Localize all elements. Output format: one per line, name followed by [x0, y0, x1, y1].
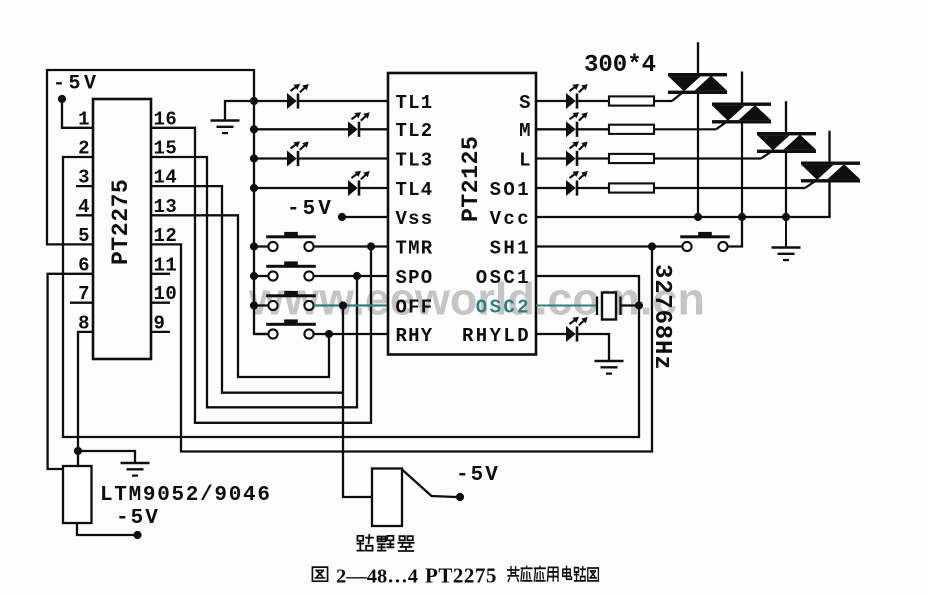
wire RHYLD to LED: [536, 333, 566, 335]
wire TMR to IC: [314, 245, 388, 247]
junction bus TMR: [250, 242, 258, 250]
ic PT2275: [93, 99, 151, 359]
junction TMR node: [367, 242, 375, 250]
pin 7 stub: [70, 302, 93, 304]
led LED1: [566, 93, 576, 109]
svg-text:6: 6: [78, 254, 90, 276]
ground (top): [225, 101, 254, 121]
triac VT1: [668, 73, 727, 76]
wire LED to R1: [578, 100, 609, 102]
svg-text:M: M: [519, 120, 531, 142]
svg-text:TL1: TL1: [396, 92, 434, 114]
ground (Vcc): [785, 217, 787, 248]
pin 4 stub: [76, 214, 93, 216]
svg-text:Vss: Vss: [396, 208, 434, 230]
wire bus stub OFF: [254, 304, 268, 306]
wire D3 to TL3: [299, 157, 388, 159]
power terminal -5V (LTM): [133, 531, 141, 539]
ic PT2125: [388, 73, 536, 355]
wire pin8 down: [78, 332, 93, 466]
svg-text:LTM9052/9046: LTM9052/9046: [100, 484, 272, 507]
resistor R3 (300): [609, 154, 654, 163]
junction Vcc VT1: [694, 213, 702, 221]
svg-text:TMR: TMR: [396, 237, 434, 259]
svg-text:8: 8: [78, 312, 90, 334]
wire bus stub SPO: [254, 275, 268, 277]
ground (RHYLD): [595, 360, 624, 363]
svg-text:Vcc: Vcc: [490, 208, 531, 230]
svg-text:SO1: SO1: [490, 179, 531, 201]
led LED4: [566, 180, 576, 196]
svg-text:2: 2: [78, 138, 90, 160]
pin 11 stub: [151, 273, 170, 275]
pushbutton S4 (RHY): [266, 323, 316, 326]
junction Vcc VT3: [782, 213, 790, 221]
junction bus TL2: [250, 125, 258, 133]
pushbutton S3 (OFF): [266, 294, 316, 297]
wire bus to D3: [254, 157, 287, 159]
triac VT2: [712, 103, 771, 106]
junction bus TL1: [250, 97, 258, 105]
wire bus stub RHY: [254, 333, 268, 335]
svg-text:SH1: SH1: [490, 237, 531, 259]
triac VT3: [757, 132, 816, 135]
svg-text:PT2125: PT2125: [458, 136, 484, 222]
pin 3 stub: [76, 185, 93, 187]
junction bus TL4: [250, 184, 258, 192]
wire buzzer to -5V: [402, 470, 456, 498]
wire LED5 to ground: [578, 334, 609, 361]
junction bus TL3: [250, 154, 258, 162]
wire input bus: [254, 69, 268, 334]
junction OFF node: [339, 301, 347, 309]
led LED3: [566, 151, 576, 167]
pushbutton S2 (SPO): [266, 265, 316, 268]
svg-text:TL3: TL3: [396, 149, 434, 171]
wire LTM to -5V: [77, 523, 134, 535]
pushbutton S1 (TMR): [266, 235, 316, 238]
wire bus to D1: [254, 100, 287, 102]
pushbutton S5 (SH1): [680, 235, 730, 238]
triac VT4: [801, 162, 860, 165]
ground (near LTM): [121, 462, 150, 465]
svg-text:PT2275: PT2275: [425, 564, 497, 588]
ic LTM9052/9046: [63, 466, 92, 523]
wire bus to D2: [254, 128, 348, 130]
wire SPO to IC: [314, 275, 388, 277]
svg-text:5: 5: [78, 225, 90, 247]
photodiode D1: [287, 93, 297, 109]
wire OFF to IC: [314, 304, 388, 306]
wire pin15 to SPO: [151, 157, 357, 407]
wire SO1 to LED: [536, 187, 566, 189]
wire left rail to pin5: [47, 69, 93, 244]
svg-text:PT2275: PT2275: [108, 179, 134, 265]
svg-text:-5V: -5V: [53, 73, 100, 96]
resistor R4 (300): [609, 183, 654, 192]
wire Vcc bus: [536, 183, 830, 218]
led LED2: [566, 121, 576, 137]
wire pin2 to OSC1 loop: [63, 157, 639, 437]
junction OSC1/crystal: [635, 301, 643, 309]
junction bus SPO: [250, 272, 258, 280]
pin 9 stub: [151, 331, 170, 333]
power terminal -5V (buzzer): [456, 493, 464, 501]
wire top rail: [47, 69, 254, 71]
wire bus stub TMR: [254, 245, 268, 247]
wire bus to D4: [254, 187, 348, 189]
wire OSC2 to crystal: [536, 305, 597, 307]
svg-text:OSC2: OSC2: [476, 296, 531, 318]
wire M to LED: [536, 128, 566, 130]
led LED5 (RHYLD): [566, 326, 576, 342]
svg-text:1: 1: [78, 108, 90, 130]
svg-text:SPO: SPO: [396, 267, 434, 289]
svg-text:TL2: TL2: [396, 120, 434, 142]
junction SH1 node: [648, 242, 656, 250]
photodiode D4: [348, 180, 358, 196]
wire LED to R4: [578, 187, 609, 189]
svg-text:L: L: [519, 149, 531, 171]
wire pin13 to RHY: [151, 215, 329, 377]
junction bus OFF: [250, 301, 258, 309]
wire OFF to buzzer: [343, 306, 372, 498]
svg-text:-5V: -5V: [116, 507, 160, 530]
wire pin16 to TMR: [151, 128, 371, 423]
resistor R2 (300): [609, 125, 654, 134]
crystal X1 32768Hz: [596, 297, 598, 316]
svg-text:RHY: RHY: [396, 325, 434, 347]
wire pin6 to LTM: [48, 274, 93, 469]
wire SH1 button to Vcc: [728, 217, 742, 247]
pin 10 stub: [151, 302, 170, 304]
photodiode D2: [348, 121, 358, 137]
svg-text:2—48…4: 2—48…4: [336, 566, 418, 588]
wire RHY to IC: [314, 333, 388, 335]
wire pin12 to SH1: [151, 244, 652, 451]
resistor R1 (300): [609, 96, 654, 105]
label buzzer 蜂鸣器: [357, 535, 372, 551]
svg-text:32768Hz: 32768Hz: [648, 264, 675, 370]
photodiode D3: [287, 151, 297, 167]
junction SPO node: [353, 272, 361, 280]
svg-text:S: S: [519, 92, 531, 114]
wire D1 to TL1: [299, 100, 388, 102]
wire LED to R3: [578, 157, 609, 159]
svg-text:-5V: -5V: [456, 464, 500, 487]
svg-text:-5V: -5V: [287, 198, 334, 221]
wire LED to R2: [578, 128, 609, 130]
svg-text:RHYLD: RHYLD: [462, 325, 531, 347]
wire D4 to TL4: [360, 187, 388, 189]
svg-text:300*4: 300*4: [584, 52, 656, 79]
wire pin8 to ground: [78, 451, 135, 463]
wire S to LED: [536, 100, 566, 102]
svg-text:OSC1: OSC1: [476, 267, 531, 289]
wire pin1 to -5V: [62, 101, 93, 128]
caption 图2-48-4 PT2275 典型应用电路图: [312, 567, 327, 581]
svg-text:OFF: OFF: [396, 296, 434, 318]
junction Vcc VT2: [738, 213, 746, 221]
junction RHY node: [325, 330, 333, 338]
wire pin14 to OFF: [151, 186, 343, 393]
buzzer BZ: [372, 469, 402, 527]
wire D2 to TL2: [360, 128, 388, 130]
wire SH1: [536, 245, 682, 247]
junction pin8 node: [74, 447, 82, 455]
wire L to LED: [536, 157, 566, 159]
svg-text:TL4: TL4: [396, 179, 434, 201]
